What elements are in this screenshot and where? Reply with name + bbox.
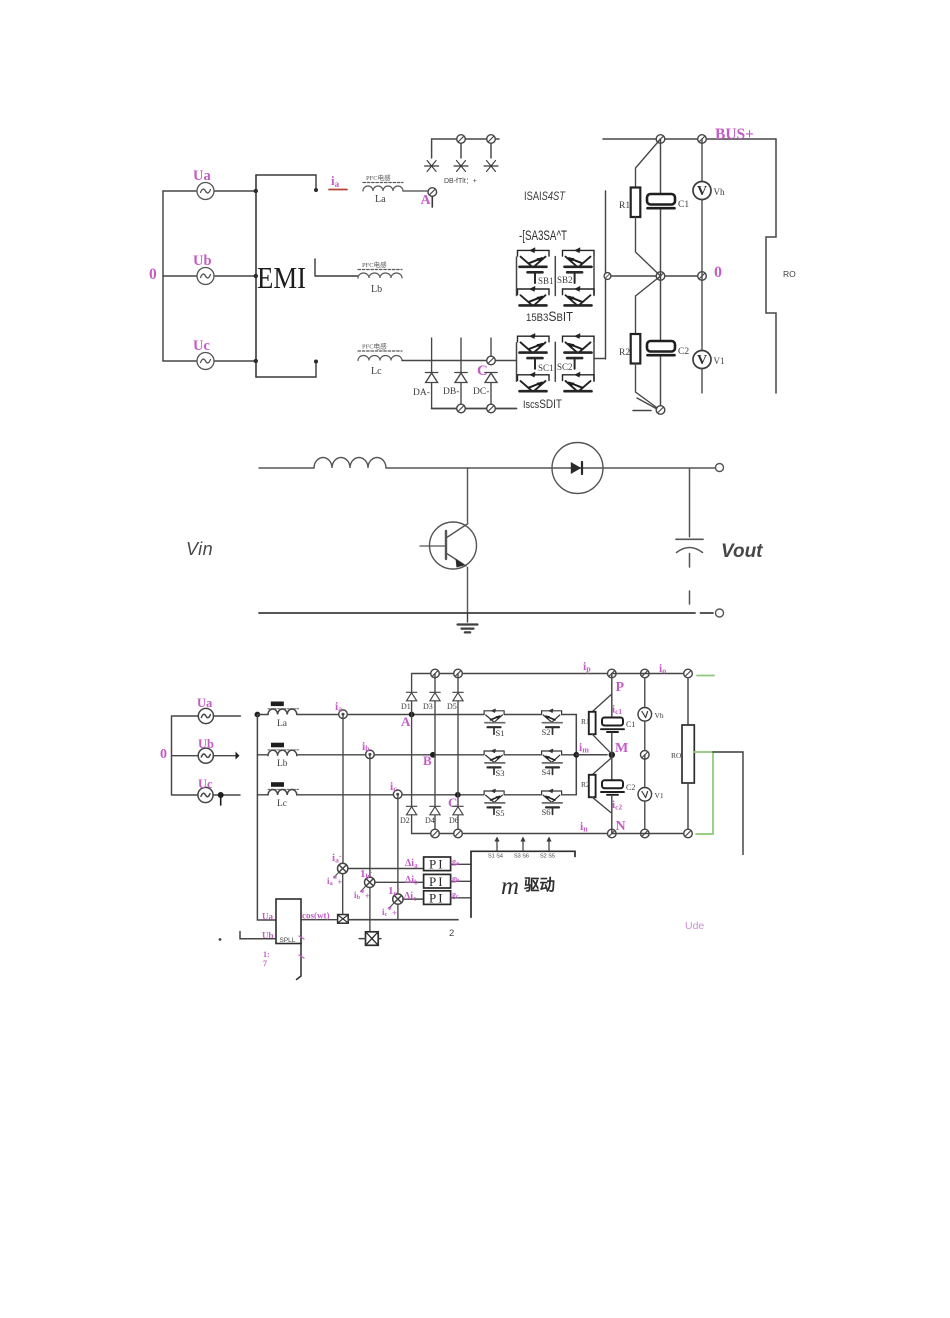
- wire phase a source leads: [163, 190, 256, 192]
- igbt S6: [542, 789, 563, 803]
- summer c: [382, 885, 403, 919]
- svg-text:S2 S5: S2 S5: [540, 854, 555, 860]
- svg-text:im: im: [579, 742, 589, 755]
- igbt bridge SC rails: [517, 342, 595, 381]
- svg-text:PI: PI: [429, 857, 445, 872]
- wire PI2 out: [451, 874, 471, 884]
- node bbus Vh: [641, 829, 650, 838]
- svg-text:D4: D4: [425, 816, 435, 825]
- diode DB-: [443, 373, 467, 398]
- svg-text:0: 0: [714, 264, 722, 281]
- svg-text:A: A: [401, 714, 411, 729]
- voltmeter V1 bottom: [638, 755, 664, 834]
- igbt S3: [484, 749, 505, 763]
- inductor La bottom: [268, 702, 299, 730]
- terminal bottom right: [716, 609, 724, 617]
- svg-text:Vout: Vout: [721, 541, 763, 562]
- gate SB2: [557, 272, 582, 285]
- gate SB1: [528, 272, 554, 286]
- wire c row inter-cell: [504, 794, 576, 796]
- svg-text:ib: ib: [362, 741, 370, 754]
- bus extension to RO: [612, 674, 688, 834]
- node B bottom: [423, 752, 436, 768]
- capacitor Cout: [676, 468, 703, 604]
- svg-text:R1: R1: [581, 717, 590, 726]
- wire La to node A: [403, 190, 428, 192]
- node bus vh: [698, 135, 707, 144]
- wire bridge output vertical: [594, 191, 606, 359]
- node on dc- bus 1: [457, 404, 466, 413]
- source Ub: [193, 253, 214, 285]
- svg-text:SC2: SC2: [557, 362, 573, 372]
- wire summer b to PI2: [375, 881, 424, 883]
- wire phase c to bridge: [402, 360, 517, 362]
- sense line ib down: [369, 755, 371, 877]
- source Uc bottom: [198, 777, 213, 803]
- igbt S4: [542, 749, 563, 763]
- svg-text:SB2: SB2: [557, 275, 573, 285]
- wire source a out: [214, 715, 241, 717]
- EMI filter block: [254, 175, 358, 377]
- diode DA+: [425, 161, 439, 172]
- sense line ic down: [397, 795, 399, 894]
- left neutral rail: [172, 716, 199, 795]
- svg-text:ip: ip: [583, 661, 591, 674]
- label 1:7: [263, 950, 270, 968]
- inductor L boost: [314, 458, 386, 468]
- node bus RO: [684, 669, 693, 678]
- current label ia: [329, 173, 347, 190]
- gate S6: [542, 807, 560, 817]
- svg-text:ga: ga: [452, 857, 459, 867]
- node bbus RO: [684, 829, 693, 838]
- svg-text:C2: C2: [626, 783, 635, 792]
- svg-text:-[SA3SA^T: -[SA3SA^T: [519, 228, 567, 243]
- source Ub bottom: [198, 737, 214, 763]
- gate arrow 3: [546, 837, 551, 851]
- resistor R1: [619, 139, 661, 276]
- wire cos to multiplier: [301, 919, 338, 921]
- voltmeter V1: [693, 276, 725, 393]
- junction phase a to SPLL: [255, 712, 261, 718]
- diode DC+: [484, 161, 498, 172]
- svg-text:gc: gc: [452, 890, 459, 900]
- svg-text:Lb: Lb: [371, 284, 382, 295]
- svg-text:D1: D1: [401, 702, 411, 711]
- node N: [608, 819, 626, 838]
- svg-text:C: C: [477, 363, 488, 379]
- wire a row inter-cell: [504, 714, 576, 716]
- svg-text:Ua: Ua: [197, 696, 213, 710]
- svg-text:D2: D2: [400, 816, 410, 825]
- gate S1: [488, 727, 505, 738]
- svg-text:Vh: Vh: [714, 187, 725, 197]
- wire summer a to PI1: [348, 868, 424, 870]
- summer a lower lead: [342, 874, 344, 915]
- svg-text:m: m: [501, 873, 519, 900]
- wire bottom rail: [259, 612, 713, 614]
- inductor Lb: [358, 260, 402, 295]
- svg-text:R2: R2: [581, 780, 590, 789]
- svg-text:La: La: [375, 194, 386, 205]
- svg-text:SB1: SB1: [538, 276, 554, 286]
- svg-text:S3: S3: [496, 768, 505, 778]
- svg-text:Ua: Ua: [193, 168, 211, 184]
- svg-text:ic*+: ic*+: [382, 905, 397, 918]
- svg-text:V1: V1: [655, 791, 664, 800]
- svg-text:7: 7: [263, 959, 267, 968]
- top dc bus: [412, 673, 612, 675]
- svg-text:PI: PI: [429, 891, 445, 906]
- svg-text:D5: D5: [447, 702, 457, 711]
- wire PI1 out: [451, 857, 471, 867]
- svg-text:ia: ia: [331, 173, 340, 189]
- svg-text:Δib: Δib: [405, 875, 418, 887]
- resistor R2: [619, 276, 661, 409]
- wire multiplier out: [348, 919, 458, 921]
- svg-text:io: io: [659, 663, 666, 676]
- voltmeter Vh: [693, 139, 725, 276]
- wire phase c: [257, 794, 483, 796]
- capacitor C1: [647, 139, 689, 276]
- svg-text:C1: C1: [626, 720, 635, 729]
- igbt S1: [484, 709, 505, 723]
- dc- diode columns: [432, 338, 491, 372]
- svg-text:ib*+: ib*+: [354, 888, 370, 901]
- gate SC1: [528, 358, 554, 373]
- svg-text:Uc: Uc: [193, 338, 210, 354]
- svg-text:1:: 1:: [263, 950, 270, 959]
- svg-text:B: B: [423, 753, 432, 768]
- bottom dc bus: [412, 833, 612, 835]
- svg-text:PFC电感: PFC电感: [362, 260, 387, 269]
- svg-text:ic: ic: [390, 781, 397, 794]
- multiplier a: [338, 915, 349, 924]
- node mid left: [604, 273, 611, 280]
- svg-text:M: M: [615, 741, 628, 756]
- igbt SC2 upper: [563, 334, 595, 353]
- gate S3: [488, 767, 505, 778]
- controller PI2: [424, 874, 451, 889]
- load RO bottom: [671, 674, 694, 834]
- svg-text:ia: ia: [335, 701, 342, 714]
- wire phase b: [257, 754, 483, 756]
- feedback wire Ude: [713, 752, 743, 855]
- svg-text:S2: S2: [542, 727, 551, 737]
- svg-text:DA-: DA-: [413, 388, 430, 398]
- wire phase a: [257, 714, 483, 716]
- gate SC2: [557, 358, 582, 372]
- wire source c out with tap: [213, 792, 240, 805]
- svg-text:ic1: ic1: [612, 704, 622, 717]
- svg-text:V1: V1: [714, 356, 725, 366]
- svg-text:Vin: Vin: [186, 539, 213, 559]
- diode D circle: [552, 443, 603, 494]
- svg-text:RO: RO: [783, 269, 796, 279]
- controller PI1: [424, 857, 451, 872]
- gate S4: [542, 767, 560, 777]
- node P: [608, 669, 625, 695]
- svg-text:S4: S4: [542, 767, 552, 777]
- wire phase b source leads: [163, 275, 256, 277]
- svg-text:ia*+: ia*+: [327, 874, 342, 887]
- svg-text:S1: S1: [496, 728, 505, 738]
- svg-text:R2: R2: [619, 348, 630, 358]
- svg-text:in: in: [580, 821, 588, 834]
- diode DC-: [473, 373, 497, 398]
- svg-text:ia-: ia-: [332, 852, 342, 865]
- igbt SB2 upper: [563, 248, 595, 267]
- summer b: [354, 868, 375, 902]
- node bus D3: [431, 669, 440, 678]
- svg-text:S3 S6: S3 S6: [514, 854, 529, 860]
- SPLL block: [276, 899, 301, 980]
- diode D2: [400, 715, 417, 834]
- right bridge rail: [573, 715, 607, 795]
- diode D3: [423, 674, 440, 755]
- svg-text:N: N: [616, 819, 626, 834]
- svg-text:DB-: DB-: [443, 387, 459, 397]
- wire PI3 out: [451, 890, 471, 900]
- dc+ diode bus: [432, 139, 499, 158]
- bottom mid node with switch: [633, 398, 665, 414]
- svg-text:Uc: Uc: [198, 777, 213, 791]
- node M: [609, 741, 629, 758]
- inductor Lc bottom: [268, 782, 299, 809]
- node bbus D6: [454, 829, 463, 838]
- svg-text:PFC电感: PFC电感: [366, 173, 391, 182]
- svg-text:Ude: Ude: [685, 920, 704, 932]
- node mid right: [698, 272, 707, 281]
- gate S2: [542, 727, 560, 737]
- svg-text:Δia: Δia: [405, 858, 418, 870]
- dot far left: [219, 938, 222, 941]
- node C: [477, 356, 495, 379]
- drive box: [471, 851, 575, 917]
- wire Ub input: [240, 932, 276, 939]
- svg-text:驱动: 驱动: [524, 876, 555, 894]
- svg-text:R1: R1: [619, 201, 630, 211]
- controller PI3: [424, 891, 451, 906]
- wire phase c source leads: [163, 360, 256, 362]
- diode D5: [447, 674, 463, 795]
- svg-text:D3: D3: [423, 702, 433, 711]
- svg-text:Ub: Ub: [193, 253, 212, 269]
- node bbus D4: [431, 829, 440, 838]
- capacitor C1 bottom: [601, 674, 635, 755]
- node bus c1: [656, 135, 665, 144]
- summer c lower lead: [397, 904, 399, 919]
- inductor Lc: [358, 342, 402, 378]
- node mid center: [656, 272, 665, 281]
- resistor R1 bottom: [581, 694, 612, 753]
- transistor Q: [420, 522, 477, 613]
- svg-text:15B3SBIT: 15B3SBIT: [526, 308, 573, 324]
- capacitor C2: [647, 276, 689, 406]
- node on dc+ bus 1: [457, 135, 466, 144]
- diode DA-: [413, 373, 438, 399]
- node A: [421, 188, 437, 208]
- gate arrow 2: [520, 837, 525, 851]
- svg-text:2: 2: [449, 928, 454, 939]
- diode D6: [449, 795, 463, 834]
- svg-text:ISAIS4ST: ISAIS4ST: [524, 189, 566, 203]
- dc- bus: [432, 408, 517, 410]
- wire left neutral rail: [162, 191, 164, 361]
- node on dc+ bus 2: [487, 135, 496, 144]
- svg-text:0: 0: [149, 266, 157, 283]
- sensor ic: [390, 781, 402, 799]
- node mid Vh: [641, 751, 650, 760]
- diode DB+: [454, 161, 468, 172]
- capacitor C2 bottom: [601, 755, 635, 834]
- node bus D5: [454, 669, 463, 678]
- svg-text:DB-fTlt：+: DB-fTlt：+: [444, 178, 477, 185]
- igbt SC4 lower: [563, 372, 595, 391]
- svg-text:D6: D6: [449, 816, 459, 825]
- SPLL sense vertical: [257, 715, 276, 921]
- svg-text:A: A: [421, 193, 432, 208]
- gate S5: [488, 807, 505, 818]
- svg-text:La: La: [277, 719, 288, 729]
- label m drive: [501, 873, 555, 900]
- svg-text:Ua: Ua: [262, 912, 273, 922]
- svg-text:EMI: EMI: [257, 260, 306, 295]
- terminal top right: [716, 464, 724, 472]
- svg-text:PI: PI: [429, 874, 445, 889]
- svg-text:RO: RO: [671, 751, 682, 760]
- green wire mid loop: [695, 752, 714, 834]
- svg-text:0: 0: [160, 747, 167, 762]
- svg-text:SPLL: SPLL: [280, 937, 296, 944]
- svg-text:Δic: Δic: [404, 891, 416, 903]
- resistor R2 bottom: [581, 758, 612, 813]
- svg-text:SC1: SC1: [538, 363, 554, 373]
- wire source b out with stub: [213, 752, 239, 760]
- source Ua: [193, 168, 214, 200]
- svg-text:PFC电感: PFC电感: [362, 342, 387, 351]
- node A bottom: [401, 712, 415, 729]
- ground: [458, 613, 478, 632]
- svg-text:ic2: ic2: [612, 799, 622, 812]
- svg-text:C1: C1: [678, 200, 689, 210]
- igbt S2: [542, 709, 563, 723]
- gate arrow 1: [494, 837, 499, 851]
- igbt SB4 lower: [563, 286, 595, 305]
- svg-text:P: P: [616, 680, 625, 695]
- sensor ib: [362, 741, 374, 759]
- igbt SB3 lower: [518, 286, 550, 305]
- magenta marks right edge: [299, 936, 304, 958]
- node on dc- bus 2: [487, 404, 496, 413]
- inductor La: [363, 173, 403, 205]
- svg-text:IscsSDIT: IscsSDIT: [523, 397, 563, 411]
- svg-text:S5: S5: [496, 808, 505, 818]
- wire top input: [259, 467, 314, 469]
- multiplier b: [359, 888, 381, 946]
- svg-text:Lb: Lb: [277, 759, 288, 769]
- svg-text:DC-: DC-: [473, 387, 489, 397]
- wire summer c to PI3: [403, 898, 424, 900]
- igbt SB1 upper: [518, 248, 550, 267]
- svg-text:Lc: Lc: [277, 799, 287, 809]
- green wire top stub: [697, 675, 714, 677]
- node bus Vh top: [641, 669, 650, 678]
- wire top middle: [386, 467, 715, 469]
- wire switch branch: [467, 468, 469, 522]
- svg-text:S6: S6: [542, 807, 551, 817]
- svg-text:gb: gb: [452, 874, 460, 884]
- igbt SC3 lower: [518, 372, 550, 391]
- summer a: [327, 852, 348, 888]
- dc bus+ top: [603, 138, 776, 140]
- voltmeter Vh bottom: [638, 674, 664, 755]
- diode D1: [401, 674, 417, 715]
- node C bottom: [448, 792, 461, 810]
- svg-text:C: C: [448, 795, 457, 810]
- wire mid rail: [606, 275, 703, 277]
- svg-text:S1 S4: S1 S4: [488, 854, 503, 860]
- svg-text:Ub: Ub: [198, 737, 214, 751]
- igbt SC1 upper: [518, 334, 550, 353]
- svg-text:C2: C2: [678, 347, 689, 357]
- igbt S5: [484, 789, 505, 803]
- diode D4: [425, 755, 440, 834]
- wire b row inter-cell: [504, 754, 576, 756]
- svg-text:cos(wt): cos(wt): [302, 911, 330, 921]
- source Ua bottom: [197, 696, 213, 724]
- load RO: [766, 139, 796, 393]
- svg-text:BUS+: BUS+: [715, 126, 754, 143]
- inductor Lb bottom: [268, 743, 299, 769]
- sensor ia: [335, 701, 347, 719]
- svg-text:Lc: Lc: [371, 366, 382, 377]
- igbt bridge SB rails: [517, 257, 595, 296]
- svg-text:Vh: Vh: [655, 711, 664, 720]
- source Uc: [193, 338, 214, 370]
- sense line ia down: [342, 715, 344, 864]
